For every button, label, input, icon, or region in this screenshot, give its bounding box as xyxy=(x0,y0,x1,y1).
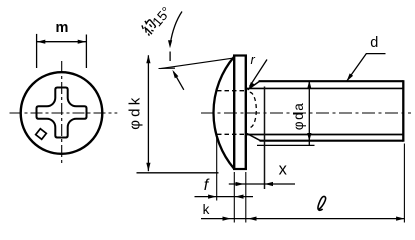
svg-text:d: d xyxy=(370,35,378,51)
svg-text:x: x xyxy=(279,161,288,179)
svg-text:r: r xyxy=(251,52,256,67)
svg-text:k: k xyxy=(203,202,210,217)
svg-text:φda: φda xyxy=(291,102,306,131)
svg-text:φdk: φdk xyxy=(127,95,144,130)
svg-text:m: m xyxy=(56,20,69,36)
